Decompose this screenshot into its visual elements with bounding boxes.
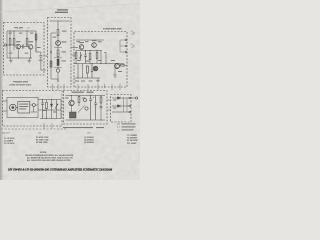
wire Q7 collector drop: [114, 68, 116, 75]
wire bottom tie: [51, 79, 58, 82]
label R7 value: [62, 60, 67, 61]
svg-text:UNLESS OTHERWISE SPECIFIED: AL: UNLESS OTHERWISE SPECIFIED: ALL VALUES S…: [25, 154, 74, 157]
label R values row: [9, 53, 13, 54]
wire R1 leads: [9, 31, 11, 58]
svg-text:PRE AMP: PRE AMP: [14, 27, 24, 30]
label Q4: [79, 42, 84, 43]
wire driver top rail: [50, 21, 70, 30]
svg-text:R3 56K 1/2W: R3 56K 1/2W: [36, 142, 48, 144]
svg-text:BALLAST: BALLAST: [2, 132, 11, 135]
wire drop x101: [100, 51, 102, 64]
svg-text:PREAMPLIFIER: PREAMPLIFIER: [13, 81, 28, 84]
label C7 plus: [93, 97, 94, 98]
terminal E3: [125, 51, 127, 53]
svg-text:F1 3A FUSE: F1 3A FUSE: [127, 139, 138, 142]
wire emitter bus: [7, 49, 32, 58]
svg-text:ALL RESISTOR VALUES IN OHMS, 1: ALL RESISTOR VALUES IN OHMS, 1/2W, K=100…: [27, 156, 73, 159]
motor M1 inner: [12, 106, 15, 109]
label power supply: [72, 92, 85, 93]
resistor R15: [78, 97, 80, 103]
preamp enclosure dashed box: [4, 23, 45, 76]
wire R15 lower: [78, 96, 80, 107]
wire R5 lower lead: [57, 36, 59, 41]
svg-text:C3 .02 600V: C3 .02 600V: [4, 143, 15, 145]
wire reverb out top: [16, 100, 61, 108]
reverb chassis dashed box: [3, 91, 63, 127]
parts list column2: [36, 136, 49, 144]
label ps footer row: [63, 127, 93, 128]
wire VR3 leads: [56, 100, 58, 119]
resistor R10: [89, 54, 91, 60]
label T1 row1: [19, 104, 28, 105]
resistor R13 emitter: [121, 64, 124, 66]
wire terminal feeds: [120, 40, 125, 52]
wire R14 leads: [46, 100, 48, 119]
transistor Q5: [92, 43, 97, 48]
resistor R1: [9, 39, 11, 46]
svg-text:PL1 LAMP: PL1 LAMP: [127, 142, 137, 145]
ground preamp right: [27, 58, 31, 63]
label T1 row3: [19, 108, 26, 109]
wire stubs reverb box bottom: [44, 123, 52, 129]
wire R6 lower: [57, 57, 59, 60]
wire D1 leads: [51, 100, 53, 119]
ground pa: [96, 78, 100, 83]
trimmer VR1: [56, 69, 59, 72]
jack J1 input: [5, 44, 7, 46]
wire VR1 down: [57, 72, 59, 82]
wire R16 leads: [100, 96, 102, 121]
transistor Q4 leads: [81, 45, 83, 49]
page left scan shadow: [0, 0, 2, 180]
fuse F1: [84, 99, 87, 102]
label R3 value: [25, 53, 29, 54]
wire pa bottom rail: [74, 77, 100, 79]
label ps line2: [87, 92, 94, 93]
lamp PL2: [85, 107, 88, 110]
label R6 value: [62, 51, 67, 52]
wire R7 lower: [57, 66, 59, 69]
annotation handwritten mid: [131, 44, 135, 47]
paper grain overlay: [0, 0, 140, 180]
label T1 row2: [19, 106, 28, 107]
svg-text:Q3 2N3055: Q3 2N3055: [84, 142, 94, 144]
resistor R14: [46, 103, 48, 109]
wire feed to output: [104, 53, 106, 64]
legend row2: [117, 126, 120, 128]
transistor Q7 output: [115, 64, 120, 69]
terminal E1: [125, 39, 127, 41]
label Q3: [62, 41, 67, 42]
wire output to right: [36, 52, 48, 70]
rectifier block REC1: [70, 112, 77, 118]
legend row3: [117, 129, 120, 131]
wire right drop: [35, 31, 37, 52]
wire top supply rail (preamp): [7, 30, 36, 32]
svg-text:+24V: +24V: [26, 28, 30, 30]
wire R9 leads: [75, 51, 77, 64]
transistor Q6: [93, 66, 98, 71]
power supply dashed box: [64, 91, 108, 125]
legend row1 text: [122, 123, 136, 124]
wire spk row2: [112, 105, 129, 107]
transistor Q6 leads: [95, 67, 97, 71]
speaker connector dashed box: [111, 95, 132, 123]
resistor R2: [13, 39, 15, 46]
legend row1: [117, 123, 120, 125]
wire Q8 leads: [71, 96, 73, 113]
transformer T1 module: [18, 102, 30, 114]
wire stubs pa box bottom: [78, 84, 120, 90]
capacitor C3: [50, 52, 52, 54]
capacitor C2 output: [39, 56, 42, 58]
svg-text:S/N GW450 & UP SR-2000/SR-200: S/N GW450 & UP SR-2000/SR-200 GUITAR/BAS…: [8, 169, 113, 172]
diode D3: [118, 105, 121, 108]
transistor Q8 leads: [70, 101, 73, 105]
transistor Q2: [28, 45, 33, 50]
wire external speaker stub: [131, 97, 136, 99]
label driver left value: [53, 37, 57, 38]
svg-text:JWL: JWL: [38, 133, 42, 135]
pot VR2 with arrow: [79, 52, 82, 60]
transistor Q3 leads: [57, 41, 59, 45]
wire R11 leads: [96, 51, 98, 64]
capacitor C6: [41, 100, 44, 119]
wire input stub from driver: [72, 48, 79, 56]
wire Q3 collector down: [57, 45, 59, 50]
wire Q1 to C1 to Q2: [20, 46, 28, 48]
wire lower rail pa: [74, 63, 124, 65]
wire ps top rail: [66, 95, 106, 97]
wire ps bottom rail: [66, 119, 106, 121]
capacitor C5: [91, 64, 93, 79]
wire R4 lower lead: [35, 40, 37, 52]
label above driver box line1: [57, 9, 68, 10]
legend row3 text: [122, 129, 134, 130]
parts list column1: [4, 138, 15, 145]
terminal J3: [129, 105, 131, 107]
wire spk row1: [112, 97, 129, 99]
terminal J4: [129, 111, 131, 113]
transistor Q2 leads: [30, 45, 32, 49]
capacitor C9: [100, 107, 103, 108]
terminal J2: [129, 97, 131, 99]
reverb unit solid box: [7, 98, 38, 118]
wire mid rail pa: [76, 50, 102, 52]
svg-text:CR1: CR1: [87, 132, 91, 134]
transistor Q5 leads: [93, 43, 95, 47]
svg-text:NOTES:: NOTES:: [40, 152, 47, 154]
terminal E2: [125, 45, 127, 47]
resistor R11: [96, 53, 98, 59]
capacitor C8 electrolytic: [94, 96, 97, 121]
capacitor C4: [84, 51, 86, 64]
resistor R8: [50, 61, 52, 67]
svg-text:Q1 2N3904: Q1 2N3904: [84, 136, 95, 139]
label ps footer row2: [96, 127, 104, 128]
wire R10 leads: [89, 51, 91, 64]
parts list column3: [84, 136, 95, 144]
motor M1: [10, 104, 17, 111]
wire reverb bottom rail: [40, 100, 61, 119]
parts list column4: [127, 135, 138, 145]
wire Q7 emitter: [120, 64, 128, 66]
wire left drop: [6, 31, 8, 58]
power amplifier dashed box: [74, 32, 127, 88]
transistor Q8: [69, 100, 74, 105]
svg-text:POWER AMPLIFIER: POWER AMPLIFIER: [103, 27, 122, 30]
wire lamp leads: [30, 105, 38, 112]
annotation handwritten top: [131, 31, 135, 34]
paper crease line: [0, 4, 140, 13]
wire spk row3: [112, 111, 129, 113]
driver stage dashed box: [48, 18, 72, 88]
wire branch left vertical: [50, 33, 52, 79]
label R5 value: [62, 31, 67, 32]
svg-text:R1 470K 1/2W: R1 470K 1/2W: [36, 136, 49, 139]
resistor R12: [86, 66, 88, 73]
transistor Q3: [56, 41, 61, 46]
wire branch top tie: [51, 32, 56, 34]
capacitor C1 coupling: [23, 45, 24, 49]
wire between ps and spk box: [107, 100, 111, 110]
diode D1: [50, 104, 52, 106]
diode D2: [118, 97, 121, 100]
terminal SPK: [136, 97, 138, 99]
label C2 value: [39, 60, 43, 61]
label Q5: [92, 40, 97, 41]
resistor R6: [57, 50, 59, 57]
extra component value labels: [9, 33, 123, 113]
resistor R3: [26, 39, 28, 46]
resistor R9: [75, 53, 77, 59]
resistor R5: [57, 30, 59, 36]
wire chassis input stubs: [3, 101, 8, 111]
legend row2 text: [122, 126, 136, 127]
label Q2: [29, 41, 33, 42]
transistor Q1 leads: [17, 45, 19, 49]
svg-text:ALL CAPACITOR VALUES IN MFD UN: ALL CAPACITOR VALUES IN MFD UNLESS NOTED: [27, 159, 71, 162]
resistor R4: [35, 34, 37, 40]
wire reverb mid rail: [38, 109, 61, 111]
resistor R16: [100, 97, 102, 103]
junction stubs driver: [54, 48, 62, 68]
label above driver box line2: [55, 12, 68, 13]
pilot lamp PL1: [32, 104, 35, 107]
wire R3 leads: [26, 31, 28, 47]
wire stubs through box bottom: [53, 84, 65, 90]
wire pa bottom verticals: [78, 64, 87, 79]
junction dots: [10, 31, 128, 121]
transistor Q7 leads: [116, 64, 119, 68]
pot VR3 arrow: [55, 103, 58, 110]
label Q1: [16, 41, 21, 42]
wire pa top rail: [76, 39, 104, 41]
wire spk verticals: [124, 98, 128, 112]
transistor Q4: [79, 45, 84, 50]
resistor R7: [57, 59, 59, 66]
chassis bottom dashed tie line: [1, 128, 66, 130]
ground preamp left: [9, 58, 13, 63]
wire R2 leads: [13, 31, 15, 50]
wire J1 to base: [7, 44, 15, 46]
wire diagonal tap: [78, 106, 85, 113]
ground output stage: [113, 75, 117, 77]
svg-text:(USED ON SR200 ONLY): (USED ON SR200 ONLY): [10, 85, 32, 87]
transistor Q1: [16, 44, 21, 49]
capacitor C7 electrolytic: [89, 96, 92, 121]
